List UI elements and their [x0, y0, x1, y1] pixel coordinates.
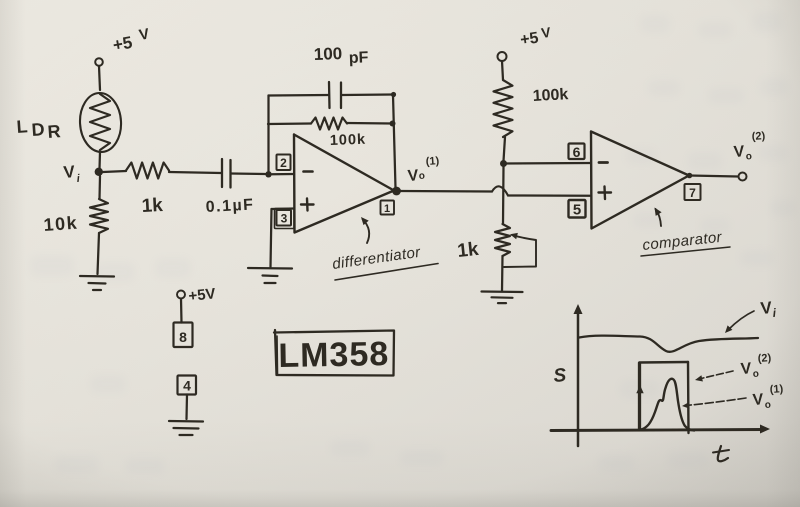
svg-text:10k: 10k [43, 213, 79, 235]
svg-text:6: 6 [573, 144, 581, 160]
svg-text:100k: 100k [330, 132, 367, 149]
svg-text:L: L [16, 116, 28, 137]
svg-text:(1): (1) [425, 155, 440, 168]
svg-text:S: S [553, 365, 568, 387]
svg-text:(1): (1) [769, 383, 784, 396]
svg-text:o: o [418, 171, 425, 182]
svg-text:5: 5 [573, 202, 581, 219]
svg-text:(2): (2) [751, 130, 766, 143]
svg-text:+5: +5 [111, 33, 133, 55]
svg-text:100: 100 [313, 44, 342, 64]
svg-text:o: o [745, 151, 752, 162]
svg-text:0.1µF: 0.1µF [205, 196, 255, 216]
svg-text:(2): (2) [757, 352, 772, 365]
svg-text:+5: +5 [519, 30, 540, 49]
svg-text:V: V [733, 143, 745, 161]
svg-text:pF: pF [349, 49, 369, 67]
svg-text:1k: 1k [141, 195, 164, 217]
svg-text:7: 7 [689, 186, 696, 200]
svg-text:R: R [47, 121, 61, 142]
svg-text:100k: 100k [532, 86, 569, 105]
svg-text:1k: 1k [456, 239, 480, 262]
svg-text:LM358: LM358 [278, 335, 389, 375]
svg-text:8: 8 [179, 329, 187, 345]
svg-text:V: V [740, 360, 752, 378]
svg-text:V: V [752, 391, 764, 409]
svg-text:D: D [31, 119, 45, 140]
svg-text:V: V [407, 167, 419, 185]
svg-text:3: 3 [281, 212, 288, 226]
svg-text:1: 1 [384, 203, 390, 215]
svg-text:+5V: +5V [188, 285, 217, 305]
svg-text:o: o [752, 369, 759, 380]
svg-text:2: 2 [280, 156, 287, 170]
svg-text:4: 4 [183, 378, 191, 394]
svg-text:o: o [764, 400, 771, 411]
